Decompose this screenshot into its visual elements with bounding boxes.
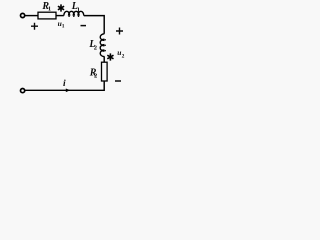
svg-text:2: 2	[94, 44, 97, 51]
svg-text:1: 1	[62, 24, 65, 30]
inductor L2 curl dots	[104, 39, 106, 51]
wire (terminal to R1)	[25, 15, 38, 17]
svg-text:1: 1	[77, 7, 80, 14]
label R2	[89, 68, 98, 80]
label L2	[88, 39, 97, 51]
polarity + (top-left, under wire)	[31, 23, 38, 30]
svg-text:2: 2	[122, 54, 125, 60]
inductor L1 curl dots	[68, 16, 79, 18]
svg-text:i: i	[63, 79, 66, 89]
terminal (bottom-left)	[21, 89, 25, 93]
terminal (top-left input)	[21, 13, 25, 17]
wire (R1 to L1)	[56, 15, 64, 17]
wire (L2 to R2)	[103, 56, 105, 62]
inductor L1	[64, 11, 84, 15]
wire (L1 to top-right corner, down to L2)	[84, 16, 104, 34]
label R1	[41, 1, 51, 13]
polarity - (after L1)	[81, 25, 87, 27]
label L1	[71, 1, 80, 13]
polarity + (right of L2 top)	[116, 28, 123, 35]
svg-text:1: 1	[48, 6, 51, 13]
polarity - (right of R2)	[115, 80, 121, 82]
label u1	[58, 19, 65, 30]
background	[0, 0, 140, 100]
label u2	[117, 48, 124, 60]
wire (R2 down, bottom return wire to terminal)	[25, 81, 104, 90]
inductor L2	[100, 34, 104, 57]
resistor R2	[102, 62, 108, 81]
dot mark * (L1 left end)	[58, 4, 64, 11]
svg-text:2: 2	[94, 73, 97, 80]
current arrow i (on bottom wire)	[66, 89, 71, 93]
resistor R1	[38, 12, 56, 19]
dot mark * (L2 bottom end)	[107, 53, 113, 60]
